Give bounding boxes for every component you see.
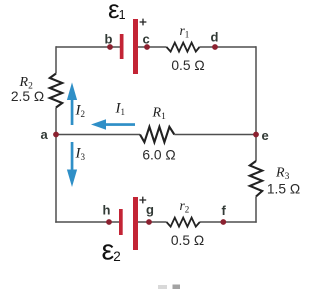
node d — [212, 44, 218, 50]
resistor R3 — [250, 161, 262, 197]
wire middle branch left (node a to R1) — [56, 134, 140, 136]
wire right side bottom (R3 to bottom-right corner) — [255, 197, 257, 223]
wire left side bottom (corner up to R2) — [55, 108, 57, 223]
wire battery E1 positive plate to node c and r1 — [138, 46, 167, 48]
svg-text:I3: I3 — [75, 146, 86, 163]
resistor r1 — [167, 43, 200, 52]
svg-text:d: d — [211, 30, 219, 45]
battery E1 positive plate — [133, 19, 138, 74]
wire left side top (R2 up to top-left corner) — [55, 46, 57, 73]
svg-text:f: f — [222, 203, 227, 218]
battery E2 plus sign — [139, 197, 146, 204]
battery E2 negative plate — [119, 209, 123, 235]
svg-text:a: a — [41, 127, 49, 142]
node b — [107, 44, 113, 50]
battery E1 negative plate — [120, 34, 124, 59]
node c — [144, 44, 150, 50]
node e — [253, 132, 259, 138]
svg-text:c: c — [143, 32, 150, 47]
battery E2 positive plate — [133, 197, 138, 250]
svg-text:R3: R3 — [275, 166, 290, 183]
node h — [106, 219, 112, 225]
svg-text:ε1: ε1 — [108, 0, 126, 24]
wire right side top (corner through node e to R3) — [255, 46, 257, 161]
svg-text:e: e — [262, 128, 269, 143]
resistor R2 — [50, 74, 62, 108]
svg-text:1.5 Ω: 1.5 Ω — [267, 182, 300, 197]
current arrow I2 — [67, 82, 77, 125]
svg-text:6.0 Ω: 6.0 Ω — [142, 148, 175, 163]
svg-text:0.5 Ω: 0.5 Ω — [171, 233, 204, 248]
resistor r2 — [167, 218, 200, 227]
svg-text:h: h — [103, 203, 111, 218]
battery E1 plus sign — [140, 19, 147, 26]
faint cropped caption fragment at bottom edge — [158, 285, 180, 289]
node a — [53, 132, 59, 138]
node f — [220, 219, 226, 225]
current arrow I1 — [91, 119, 135, 129]
current arrow I3 — [67, 142, 77, 187]
svg-text:ε2: ε2 — [102, 234, 121, 266]
svg-text:2.5 Ω: 2.5 Ω — [11, 89, 44, 104]
svg-text:I2: I2 — [75, 103, 86, 120]
wire bottom-right (corner through node f to r2) — [200, 221, 257, 223]
wire node g to battery E2 positive plate — [138, 221, 167, 223]
svg-text:g: g — [146, 202, 154, 217]
node g — [146, 219, 152, 225]
wire node d to top-right corner — [200, 46, 257, 48]
svg-text:R1: R1 — [152, 106, 167, 123]
svg-text:I1: I1 — [115, 101, 126, 118]
svg-text:r1: r1 — [180, 23, 190, 40]
resistor R1 — [140, 127, 174, 142]
wire middle branch right (R1 to node e) — [174, 134, 256, 136]
wire battery E2 negative plate to bottom-left corner — [55, 221, 119, 223]
svg-text:b: b — [105, 32, 113, 47]
wire top-left segment (corner to battery E1 negative plate) — [56, 46, 120, 48]
svg-text:r2: r2 — [180, 198, 190, 215]
svg-text:0.5 Ω: 0.5 Ω — [171, 58, 204, 73]
